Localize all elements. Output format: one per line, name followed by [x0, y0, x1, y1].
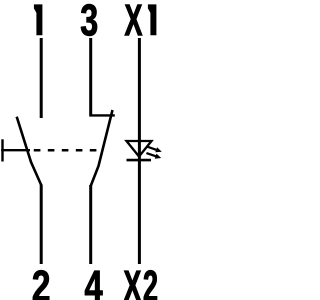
LED light arrow 1	[148, 147, 162, 153]
wire terminal 3 (top)	[89, 38, 92, 117]
terminal label 1	[34, 4, 43, 35]
wire X1-X2 (through LED)	[138, 38, 141, 264]
LED light arrow 2	[146, 153, 161, 159]
actuator plunger T-bar	[1, 139, 3, 161]
terminal label 3	[81, 4, 97, 36]
LED triangle (anode)	[127, 141, 152, 157]
wire terminal 1 (top)	[40, 38, 43, 118]
terminal label 4	[85, 271, 103, 300]
contact S2 moving arm (NC contact 3-4)	[91, 110, 113, 186]
terminal label X1	[125, 4, 157, 35]
mechanical linkage (dashed)	[34, 149, 97, 152]
terminal label X2	[124, 270, 157, 300]
wire terminal 2 (bottom)	[40, 185, 43, 265]
terminal label 2	[33, 270, 49, 300]
wire terminal 4 (bottom)	[89, 185, 92, 264]
LED cathode bar	[127, 159, 152, 162]
actuator rod	[1, 149, 30, 151]
contact S2 fixed contact seat	[90, 114, 115, 116]
contact S1 moving arm (NO contact 1-2)	[17, 117, 42, 185]
